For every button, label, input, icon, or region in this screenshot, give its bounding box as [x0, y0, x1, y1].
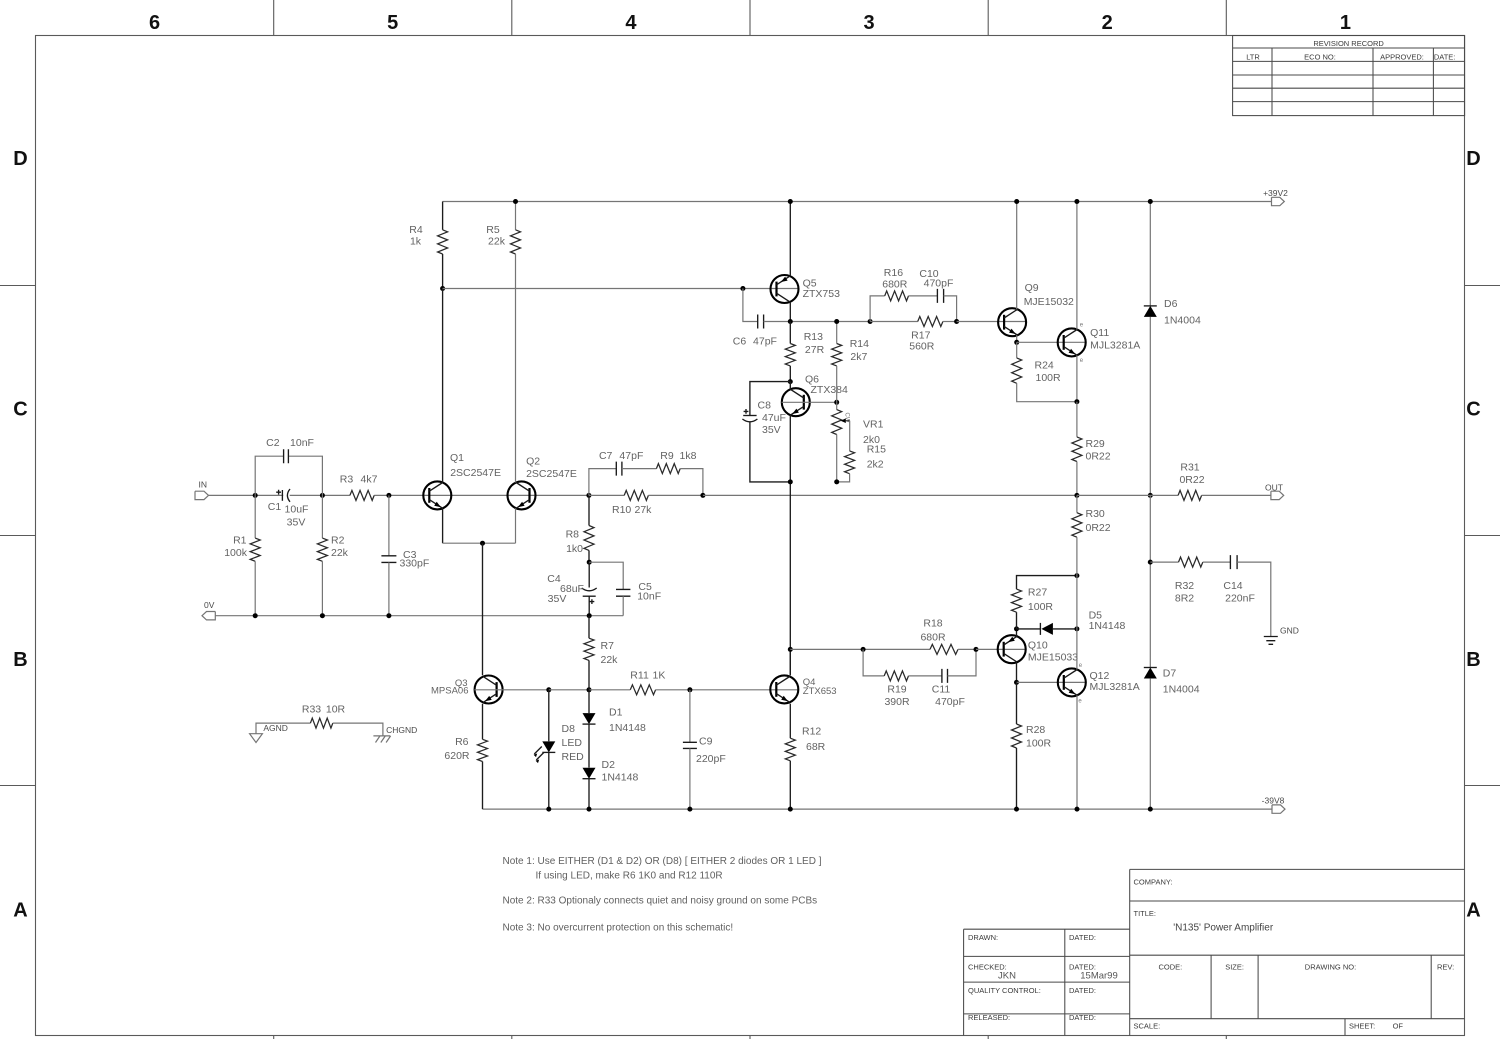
svg-text:D1: D1: [609, 707, 623, 719]
svg-text:DATED:: DATED:: [1069, 986, 1096, 995]
svg-text:47pF: 47pF: [619, 450, 643, 462]
svg-text:DATED:: DATED:: [1069, 1013, 1096, 1022]
wire Q10 collector down: [1016, 662, 1018, 682]
svg-text:R11: R11: [630, 670, 649, 682]
svg-text:R6: R6: [455, 736, 469, 748]
wire Q3 base to R7/D1 column: [549, 689, 589, 691]
junction R27 top: [1074, 573, 1079, 578]
svg-text:100k: 100k: [224, 547, 248, 559]
svg-text:1k0: 1k0: [566, 543, 583, 555]
diode D2: [588, 724, 590, 768]
svg-text:SCALE:: SCALE:: [1134, 1021, 1161, 1030]
svg-text:10nF: 10nF: [637, 590, 661, 602]
wire C2 branch right: [288, 456, 322, 495]
svg-text:D2: D2: [602, 759, 616, 771]
resistor R33: [256, 723, 310, 734]
svg-text:8R2: 8R2: [1175, 593, 1194, 605]
svg-text:REV:: REV:: [1437, 963, 1454, 972]
ground AGND: [250, 734, 263, 743]
svg-text:R3: R3: [340, 474, 354, 486]
svg-text:0V: 0V: [204, 600, 215, 610]
svg-text:'N135' Power Amplifier: 'N135' Power Amplifier: [1173, 922, 1274, 933]
transistor Q3: [475, 676, 503, 704]
resistor R17: [870, 321, 918, 323]
capacitor C5: [616, 589, 630, 596]
junction Q11 collector/rail: [1074, 199, 1079, 204]
svg-text:1: 1: [1340, 12, 1351, 34]
svg-text:2k7: 2k7: [850, 351, 867, 363]
svg-text:68R: 68R: [806, 741, 826, 753]
svg-text:CODE:: CODE:: [1159, 963, 1183, 972]
svg-text:Q9: Q9: [1025, 282, 1039, 294]
wire tail down to Q3 collector: [482, 543, 484, 675]
svg-text:1N4004: 1N4004: [1163, 683, 1200, 695]
svg-text:C: C: [1466, 399, 1480, 421]
svg-text:D7: D7: [1163, 667, 1177, 679]
svg-text:Q11: Q11: [1090, 327, 1109, 339]
svg-text:MJE15032: MJE15032: [1024, 296, 1074, 308]
svg-text:4: 4: [625, 12, 637, 34]
wire D1 node to R11: [589, 689, 630, 691]
svg-text:R7: R7: [601, 640, 615, 652]
svg-text:2SC2547E: 2SC2547E: [450, 467, 501, 479]
junction C9/-39V8: [687, 807, 692, 812]
junction R8/C4/C5: [587, 560, 592, 565]
wire Q5 emitter to rail: [789, 202, 791, 277]
wire Q5 collector: [789, 302, 791, 322]
svg-text:C6: C6: [733, 336, 747, 348]
svg-text:1N4148: 1N4148: [1089, 620, 1126, 632]
resistor R13: [789, 322, 791, 344]
resistor R6: [482, 704, 484, 740]
capacitor C6: [758, 315, 764, 329]
svg-text:C7: C7: [599, 450, 613, 462]
svg-text:1N4148: 1N4148: [602, 771, 639, 783]
svg-text:6: 6: [149, 12, 160, 34]
svg-text:10R: 10R: [326, 704, 346, 716]
svg-text:DATED:: DATED:: [1069, 933, 1096, 942]
svg-text:1K: 1K: [653, 670, 666, 682]
resistor R24: [1016, 342, 1018, 358]
junction D5 anode: [1074, 626, 1079, 631]
wire Q9 emitter: [1016, 335, 1018, 342]
ground CHGND: [373, 736, 390, 743]
svg-text:C11: C11: [932, 683, 951, 695]
wire C5 branch: [589, 562, 623, 589]
svg-text:470pF: 470pF: [935, 696, 965, 708]
svg-text:22k: 22k: [331, 547, 349, 559]
svg-text:2: 2: [1102, 12, 1113, 34]
junction D2/-39V8: [587, 807, 592, 812]
junction R28/-39V8: [1014, 807, 1019, 812]
svg-text:470pF: 470pF: [924, 278, 954, 290]
junction Q11 emitter/R29: [1074, 399, 1079, 404]
junction R5/top rail: [513, 199, 518, 204]
junction R7/D1: [587, 687, 592, 692]
svg-text:5: 5: [387, 12, 398, 34]
junction R16/R17 left: [868, 319, 873, 324]
capacitor C4: [588, 562, 590, 587]
wire C7 to R9: [622, 468, 657, 470]
wire R10 to feedback node: [648, 494, 703, 496]
resistor R1: [254, 495, 256, 538]
capacitor C9: [689, 690, 691, 743]
terminal OUT: [1271, 491, 1284, 499]
svg-text:Q10: Q10: [1028, 639, 1048, 651]
column ticks top/bottom: [273, 0, 275, 36]
svg-text:VR1: VR1: [863, 418, 884, 430]
diode D6: [1149, 202, 1151, 306]
wire +39V2 top rail: [443, 201, 1272, 203]
junction R17/C10 right: [954, 319, 959, 324]
wire Q9 collector to rail: [1016, 202, 1018, 310]
diode D5: [1017, 628, 1041, 630]
junction VR1 bottom: [834, 479, 839, 484]
svg-text:REVISION RECORD: REVISION RECORD: [1313, 39, 1384, 48]
junction C6 branch: [740, 286, 745, 291]
junction R14 top: [834, 319, 839, 324]
wire R16 branch up: [870, 296, 885, 322]
svg-text:+39V2: +39V2: [1263, 188, 1288, 198]
svg-text:22k: 22k: [488, 236, 506, 248]
capacitor C14: [1230, 555, 1237, 569]
wire Q1 collector: [442, 289, 444, 483]
svg-text:R29: R29: [1086, 438, 1105, 450]
transistor Q4: [770, 675, 798, 703]
svg-text:680R: 680R: [882, 279, 908, 291]
svg-text:3: 3: [863, 12, 874, 34]
svg-text:ZTX653: ZTX653: [803, 686, 837, 697]
svg-text:D: D: [13, 148, 27, 170]
svg-text:47pF: 47pF: [753, 336, 777, 348]
svg-text:LED: LED: [562, 737, 583, 749]
svg-text:TITLE:: TITLE:: [1134, 909, 1157, 918]
svg-text:SHEET:: SHEET:: [1349, 1021, 1375, 1030]
svg-text:Note 1: Use EITHER (D1 & D2) O: Note 1: Use EITHER (D1 & D2) OR (D8) [ E…: [503, 856, 822, 867]
svg-text:Note 3: No overcurrent protect: Note 3: No overcurrent protection on thi…: [503, 923, 734, 934]
svg-text:1k: 1k: [410, 236, 422, 248]
svg-text:A: A: [1466, 899, 1480, 921]
wire R5 to Q2 collector: [515, 254, 517, 483]
svg-text:35V: 35V: [548, 593, 567, 605]
terminal IN: [195, 491, 209, 499]
junction C8 bottom/Q6 emitter: [788, 479, 793, 484]
resistor R8: [588, 495, 590, 525]
svg-text:10uF: 10uF: [285, 503, 309, 515]
ground GND: [1264, 637, 1278, 645]
capacitor C10: [937, 289, 943, 303]
svg-text:DRAWN:: DRAWN:: [968, 933, 998, 942]
resistor R32: [1150, 561, 1178, 563]
diode D1: [588, 690, 590, 713]
wire C14 to GND: [1237, 562, 1271, 636]
resistor R9: [656, 464, 680, 474]
svg-text:RELEASED:: RELEASED:: [968, 1013, 1010, 1022]
wire 0V line: [215, 615, 623, 617]
svg-text:MPSA06: MPSA06: [431, 686, 469, 697]
svg-text:Q1: Q1: [450, 452, 464, 464]
svg-text:R2: R2: [331, 535, 345, 547]
resistor R28: [1016, 682, 1018, 724]
LED D8: [548, 690, 550, 742]
svg-text:COMPANY:: COMPANY:: [1134, 878, 1173, 887]
title block box: [1130, 869, 1465, 1035]
capacitor C8: [743, 415, 756, 417]
junction Q10 collector/Q12 base/R28: [1014, 680, 1019, 685]
junction R18/C11 right: [974, 647, 979, 652]
junction R4/Q1 collector/Q5 base line: [440, 286, 445, 291]
svg-text:A: A: [13, 899, 27, 921]
transistor Q2: [508, 481, 536, 509]
svg-text:-39V8: -39V8: [1262, 796, 1285, 806]
junction Q12 emitter/-39V8: [1075, 807, 1080, 812]
svg-text:AGND: AGND: [263, 723, 288, 733]
wire Q4 collector: [789, 649, 791, 675]
svg-text:680R: 680R: [920, 631, 946, 643]
svg-text:560R: 560R: [909, 341, 935, 353]
wire R16 to C10: [909, 295, 938, 297]
svg-text:ECO NO:: ECO NO:: [1304, 52, 1336, 61]
junction Q9 collector/rail: [1014, 199, 1019, 204]
svg-text:SIZE:: SIZE:: [1225, 963, 1244, 972]
wire R19 branch down: [863, 649, 884, 676]
resistor R31: [1178, 490, 1202, 500]
resistor R11: [630, 685, 655, 695]
svg-text:D: D: [1466, 148, 1480, 170]
junction D8/-39V8: [546, 807, 551, 812]
wire VAS line to Q10 base: [976, 648, 1026, 650]
wire Q6 base line: [782, 401, 837, 403]
svg-text:620R: 620R: [444, 750, 470, 762]
svg-text:B: B: [13, 649, 27, 671]
transistor Q11: [1058, 328, 1086, 356]
svg-text:MJL3281A: MJL3281A: [1090, 681, 1140, 693]
svg-text:1N4148: 1N4148: [609, 722, 646, 734]
junction R13/Q6 collector/C8: [788, 379, 793, 384]
capacitor C7: [616, 462, 622, 476]
svg-text:OUT: OUT: [1265, 483, 1283, 493]
wire Q6 emitter down: [789, 415, 791, 675]
resistor R15: [849, 421, 851, 451]
junction C3/0V: [386, 613, 391, 618]
resistor R3: [350, 490, 374, 500]
wire Q10 emitter up: [1016, 629, 1018, 636]
wire C11 up to VAS line: [948, 649, 977, 676]
wire Q11 collector to rail: [1076, 202, 1078, 330]
wire R30 to Q12 collector: [1076, 576, 1078, 670]
transistor Q9: [998, 308, 1026, 336]
transistor Q1: [423, 481, 451, 509]
resistor R18: [930, 644, 958, 654]
svg-text:2SC2547E: 2SC2547E: [526, 468, 577, 480]
svg-text:100R: 100R: [1036, 372, 1062, 384]
svg-text:100R: 100R: [1028, 601, 1054, 613]
svg-text:C2: C2: [266, 437, 280, 449]
svg-text:R33: R33: [302, 704, 321, 716]
wire feedback line to output node: [703, 494, 1077, 496]
svg-text:R16: R16: [884, 267, 903, 279]
svg-text:R30: R30: [1086, 508, 1105, 520]
svg-text:0R22: 0R22: [1086, 451, 1111, 463]
svg-text:R18: R18: [923, 618, 942, 630]
wire Q11 emitter: [1076, 355, 1078, 401]
junction input/C2/R1: [253, 493, 258, 498]
svg-text:DATE:: DATE:: [1434, 52, 1456, 61]
wire C10 down: [944, 296, 957, 322]
svg-text:ZTX753: ZTX753: [803, 288, 841, 300]
svg-text:35V: 35V: [762, 424, 781, 436]
svg-text:R27: R27: [1028, 587, 1047, 599]
resistor R4: [442, 202, 444, 230]
svg-text:MJE15033: MJE15033: [1028, 652, 1078, 664]
junction D6/rail: [1148, 199, 1153, 204]
svg-text:47uF: 47uF: [762, 412, 786, 424]
resistor R27: [1017, 576, 1077, 590]
svg-text:C8: C8: [758, 399, 772, 411]
resistor R7: [588, 616, 590, 639]
svg-text:R4: R4: [409, 224, 423, 236]
wire C8 top branch: [750, 382, 790, 416]
junction R32 branch: [1148, 560, 1153, 565]
wire IN line to R3: [209, 494, 350, 496]
capacitor C11: [942, 669, 948, 683]
wire VAS line to R18: [790, 648, 930, 650]
junction C1 out/C2/R2: [320, 493, 325, 498]
wire Q2 base node to R10: [589, 494, 624, 496]
junction R12/-39V8: [788, 807, 793, 812]
potentiometer VR1: [836, 402, 838, 409]
junction Q5 collector: [788, 319, 793, 324]
svg-text:R31: R31: [1180, 461, 1199, 473]
transistor Q5: [771, 275, 799, 303]
capacitor C1: [283, 489, 290, 502]
svg-text:220nF: 220nF: [1225, 593, 1255, 605]
wire Q3 base line: [474, 689, 549, 691]
resistor R19: [884, 671, 908, 681]
row ticks left/right: [0, 285, 36, 287]
svg-text:R32: R32: [1175, 580, 1194, 592]
wire R9 down to line: [680, 469, 703, 496]
svg-text:C1: C1: [268, 501, 282, 513]
svg-text:10nF: 10nF: [290, 437, 314, 449]
svg-text:C: C: [13, 399, 27, 421]
resistor R5: [515, 202, 517, 230]
terminal 0V: [202, 612, 215, 620]
resistor R16: [885, 291, 909, 301]
capacitor C3: [388, 495, 390, 555]
svg-text:C9: C9: [699, 736, 713, 748]
junction Q10 emitter/D5/R27: [1014, 626, 1019, 631]
resistor R12: [789, 704, 791, 739]
svg-text:2k2: 2k2: [867, 459, 884, 471]
junction R2/0V: [320, 613, 325, 618]
junction R1/0V: [253, 613, 258, 618]
wire output node to R31: [1077, 494, 1178, 496]
junction R3/C3: [386, 493, 391, 498]
wire R11 to Q4 base: [656, 689, 799, 691]
svg-text:R10: R10: [612, 504, 631, 516]
junction C9/R11: [687, 687, 692, 692]
wire to Q9 base: [957, 321, 1027, 323]
junction Q5 emitter/rail: [788, 199, 793, 204]
svg-text:100R: 100R: [1026, 737, 1052, 749]
wire -39V8 bottom rail: [483, 808, 1273, 810]
junction C4/0V: [587, 613, 592, 618]
diode D7: [1149, 495, 1151, 667]
wire R19 to C11: [909, 675, 942, 677]
svg-text:4k7: 4k7: [361, 474, 378, 486]
svg-text:B: B: [1466, 649, 1480, 671]
svg-text:If using LED, make R6 1K0 and: If using LED, make R6 1K0 and R12 110R: [536, 870, 723, 881]
svg-text:0R22: 0R22: [1179, 474, 1204, 486]
svg-text:R1: R1: [233, 535, 247, 547]
svg-text:27k: 27k: [635, 504, 653, 516]
svg-text:D8: D8: [562, 723, 576, 735]
wire C6 branch: [743, 289, 758, 322]
wire Q6 collector: [789, 382, 791, 390]
resistor R29: [1076, 402, 1078, 437]
svg-text:OF: OF: [1393, 1021, 1404, 1030]
svg-text:35V: 35V: [287, 516, 306, 528]
svg-text:330pF: 330pF: [400, 558, 430, 570]
junction Q2 base/R8/C7: [586, 493, 591, 498]
svg-text:RED: RED: [562, 751, 585, 763]
svg-text:15Mar99: 15Mar99: [1080, 971, 1118, 982]
svg-text:Q2: Q2: [526, 455, 540, 467]
junction tail: [480, 541, 485, 546]
resistor R14: [836, 322, 838, 344]
wire R3 to Q2 base: [374, 494, 589, 496]
svg-text:R13: R13: [804, 331, 823, 343]
capacitor C2: [284, 449, 289, 463]
svg-text:R28: R28: [1026, 724, 1045, 736]
wire Q12 base line: [1017, 681, 1086, 683]
wire Q12 emitter: [1076, 695, 1078, 809]
svg-text:LTR: LTR: [1246, 52, 1260, 61]
transistor Q6: [782, 388, 810, 416]
svg-text:1k8: 1k8: [680, 450, 697, 462]
junction Q6 base/R14/VR1: [834, 400, 839, 405]
svg-text:JKN: JKN: [998, 971, 1016, 982]
svg-text:DRAWING NO:: DRAWING NO:: [1305, 963, 1356, 972]
svg-text:MJL3281A: MJL3281A: [1090, 340, 1140, 352]
transistor Q10: [998, 635, 1026, 663]
svg-text:CHGND: CHGND: [386, 725, 417, 735]
svg-text:R24: R24: [1035, 359, 1054, 371]
wire Q1 emitter to tail: [442, 508, 444, 543]
svg-text:QUALITY CONTROL:: QUALITY CONTROL:: [968, 986, 1041, 995]
resistor R2: [321, 495, 323, 538]
svg-text:27R: 27R: [805, 344, 825, 356]
revision record table: [1233, 36, 1465, 116]
junction Q4 collector/VAS line: [788, 647, 793, 652]
resistor R10: [624, 490, 648, 500]
wire C7 branch up: [589, 469, 616, 496]
svg-text:R12: R12: [802, 726, 821, 738]
resistor R30: [1076, 495, 1078, 512]
svg-text:R5: R5: [486, 224, 500, 236]
wire C6 to Q5 collector node: [764, 321, 871, 323]
svg-text:ZTX384: ZTX384: [811, 384, 849, 396]
terminal -39V8: [1272, 805, 1285, 813]
svg-text:390R: 390R: [884, 696, 910, 708]
svg-text:R9: R9: [660, 450, 674, 462]
svg-text:GND: GND: [1280, 626, 1299, 636]
wire Q5 base line: [443, 288, 799, 290]
svg-text:R15: R15: [867, 443, 886, 455]
transistor Q12: [1058, 668, 1086, 696]
svg-text:APPROVED:: APPROVED:: [1380, 52, 1424, 61]
